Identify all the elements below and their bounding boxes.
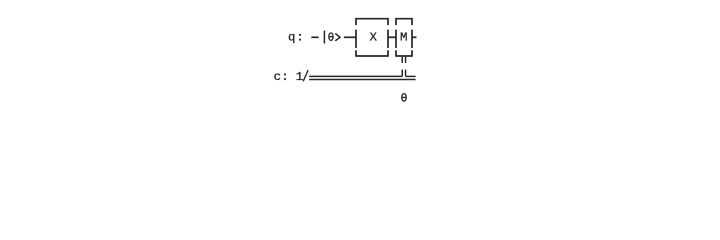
initial-state bar — [323, 31, 325, 44]
qubit wire into X box — [344, 36, 356, 38]
ket zero digit — [329, 33, 334, 40]
svg-text:M: M — [400, 31, 407, 45]
M box bottom bar — [395, 55, 413, 57]
X box top bar — [355, 18, 389, 20]
M box left verticals — [395, 19, 397, 25]
svg-text::: : — [281, 70, 288, 84]
wire between X box and M box — [388, 36, 396, 38]
wire stub exiting M box — [412, 36, 417, 38]
measure double-drop joining classical wire — [401, 70, 403, 77]
svg-text:X: X — [370, 31, 378, 45]
measure double-drop below M box — [401, 57, 403, 63]
classical double wire upper line (junction gap) — [309, 75, 402, 77]
X box left verticals — [355, 19, 357, 25]
svg-text::: : — [296, 31, 303, 45]
ket close chevron — [335, 34, 340, 41]
classical size slash — [303, 70, 308, 81]
classical double wire lower line — [309, 79, 415, 81]
svg-text:c: c — [274, 70, 281, 84]
classical bit index 0 — [402, 94, 407, 102]
M box right verticals — [411, 19, 413, 25]
M box top bar — [395, 18, 413, 20]
svg-text:q: q — [288, 31, 295, 45]
svg-text:1: 1 — [296, 70, 303, 84]
X box right verticals — [387, 19, 389, 25]
X box bottom bar — [355, 55, 389, 57]
qubit wire lead dash — [311, 36, 318, 38]
